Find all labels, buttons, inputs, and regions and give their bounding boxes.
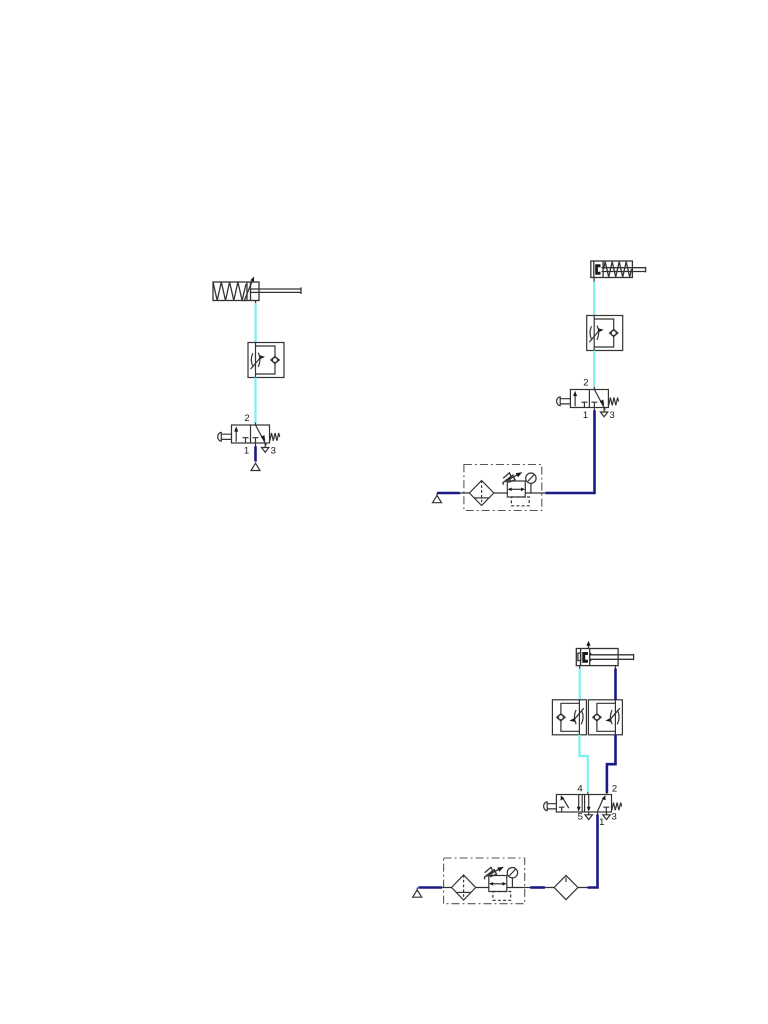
filter 0Z4 (diamond) bbox=[554, 875, 578, 899]
svg-text:2: 2 bbox=[244, 413, 249, 424]
pipe black inside unit 0Z3 bbox=[442, 887, 525, 889]
filter with separator (unit 0Z2) bbox=[469, 481, 493, 506]
cylinder 3A (double-acting) bbox=[576, 641, 633, 666]
wire blue 3A-right-port bbox=[614, 669, 617, 701]
svg-text:1: 1 bbox=[583, 410, 588, 421]
5/2-way valve 3V1 (push button, spring return) bbox=[544, 795, 622, 813]
pipe black into filter 0Z4 bbox=[545, 887, 588, 889]
svg-text:1: 1 bbox=[599, 817, 604, 828]
pin 1V1 port 2 bbox=[255, 423, 257, 426]
cylinder 2A (single-acting, spring return, retracted) bbox=[591, 261, 646, 278]
wire blue 3V1-port1 to filter bbox=[588, 815, 598, 888]
pressure regulator (unit 0Z3) bbox=[484, 867, 510, 901]
svg-text:4: 4 bbox=[577, 784, 582, 795]
wire cyan flow-valve-to-1V1 bbox=[254, 378, 256, 424]
wire cyan flow-valve-to-2V1 bbox=[593, 351, 595, 388]
svg-text:3: 3 bbox=[612, 812, 617, 823]
wire cyan 1A-to-flow-valve bbox=[255, 303, 257, 343]
pressure gauge (unit 0Z2) bbox=[526, 473, 536, 493]
pin cylinder 1A port bbox=[255, 301, 257, 304]
wire cyan 2A-to-flow-valve bbox=[593, 282, 595, 317]
wire cyan 3V2-to-3V1 port4 bbox=[580, 735, 588, 793]
service unit 0Z3 frame bbox=[444, 858, 525, 904]
wire blue 3V3-to-3V1 port2 bbox=[607, 735, 616, 793]
service unit 0Z2 frame bbox=[464, 465, 542, 511]
svg-text:3: 3 bbox=[610, 410, 615, 421]
pin cylinder 2A port bbox=[593, 278, 595, 282]
one-way flow control valve 1V2 bbox=[248, 343, 284, 378]
3/2-way valve 1V1 (push button, spring return) bbox=[218, 425, 280, 452]
svg-text:2: 2 bbox=[612, 784, 617, 795]
pins 3V1 exhaust ports 5,3 bbox=[589, 812, 607, 815]
wire blue 1V1 port1 to source bbox=[254, 446, 257, 461]
pin 2V1 port 2 bbox=[593, 387, 595, 390]
filter with separator (unit 0Z3) bbox=[452, 875, 476, 900]
pressure regulator (unit 0Z2) bbox=[503, 472, 529, 506]
compressed air source 0Z2 bbox=[436, 493, 438, 495]
one-way flow control valve 3V3 (right) bbox=[588, 700, 622, 735]
pin 3V1 port 4 bbox=[587, 792, 589, 794]
svg-text:5: 5 bbox=[578, 812, 583, 823]
pin port 1 bbox=[255, 443, 257, 447]
exhaust port 5 triangle bbox=[585, 815, 592, 820]
pipe black into unit bbox=[460, 492, 546, 494]
wire blue source-to-unit 0Z3 bbox=[418, 886, 442, 889]
wire blue filter-to-service-unit bbox=[530, 886, 545, 889]
3/2-way valve 2V1 (push button, spring return) bbox=[557, 390, 619, 417]
pipe black unit right edge bbox=[525, 887, 531, 889]
wire cyan 3A-left-port bbox=[579, 669, 581, 700]
one-way flow control valve 3V2 (left) bbox=[552, 700, 586, 735]
wire blue source-to-unit bbox=[437, 492, 460, 495]
cylinder 1A (single-acting, spring return, extended) bbox=[213, 277, 301, 302]
compressed air source 0Z1 bbox=[251, 463, 260, 470]
pin 3V1 port 1 bbox=[597, 812, 599, 815]
one-way flow control valve 2V2 bbox=[587, 316, 623, 351]
svg-text:3: 3 bbox=[271, 446, 276, 457]
pin 3V1 port 2 bbox=[606, 792, 608, 794]
pressure gauge (unit 0Z3) bbox=[507, 868, 517, 888]
pin 2V1 port 1 bbox=[593, 408, 595, 411]
wire blue 2V1-to-service-unit bbox=[546, 410, 595, 493]
svg-text:2: 2 bbox=[583, 378, 588, 389]
compressed air source 0Z5 bbox=[416, 888, 418, 890]
exhaust port 3 triangle bbox=[603, 815, 610, 820]
svg-text:1: 1 bbox=[244, 446, 249, 457]
pins cylinder 3A ports bbox=[580, 666, 616, 669]
